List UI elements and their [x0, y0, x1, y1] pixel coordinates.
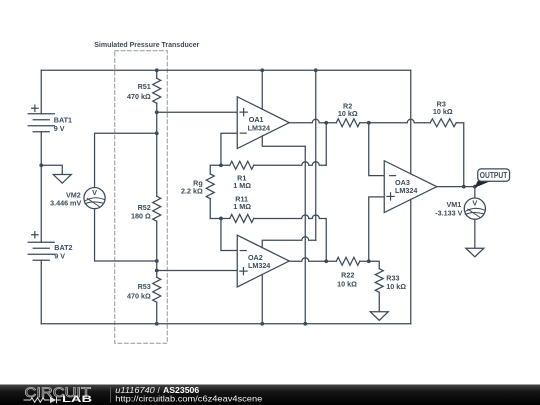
- wire R33 to ground: [378, 292, 380, 312]
- junction Rg/R11/OA2- node: [219, 217, 223, 221]
- junction VM2 bottom tap: [155, 259, 159, 263]
- wire to OA3 noninverting input: [369, 197, 385, 261]
- junction top rail / OA2 V+ riser: [314, 68, 318, 72]
- resistor R51: [153, 78, 161, 103]
- wire top V+ rail: [41, 69, 411, 71]
- svg-text:2.2 kΩ: 2.2 kΩ: [181, 187, 203, 196]
- wire bottom V- rail: [41, 323, 411, 325]
- svg-text:LAB: LAB: [62, 394, 93, 404]
- svg-text:-3.133 V: -3.133 V: [435, 208, 462, 217]
- wire R11 right lead to OA2 output net: [254, 215, 327, 261]
- wire BAT1 to BAT2: [40, 132, 42, 243]
- wire to ground symbol: [41, 165, 62, 174]
- op-amp OA2: [237, 235, 289, 287]
- junction bottom rail / negative net: [303, 322, 307, 326]
- wire R2 left lead: [326, 122, 336, 124]
- OA2 + pin mark: [240, 268, 247, 275]
- footer bar: [0, 385, 540, 405]
- OA3 + pin mark: [387, 193, 394, 200]
- junction VM2 top tap: [155, 131, 159, 135]
- resistor R3: [430, 119, 456, 127]
- svg-text:V: V: [92, 188, 97, 197]
- ground (VM1): [466, 248, 484, 257]
- svg-text:LM324: LM324: [395, 186, 417, 195]
- wire negative net vertical: [304, 146, 306, 324]
- wire R11 left lead: [221, 217, 230, 219]
- wire R1 right lead to OA1 output net: [254, 162, 327, 165]
- wire OA1 output to R1 feedback: [325, 123, 327, 166]
- flag OUTPUT pointer: [474, 181, 492, 188]
- junction bottom rail / R53: [155, 322, 159, 326]
- wire R53 to bottom rail: [156, 302, 158, 324]
- junction Rg/R1/OA1- node: [219, 163, 223, 167]
- junction top rail / OA1 V+: [260, 68, 264, 72]
- op-amp OA1: [237, 97, 289, 149]
- svg-text:http://circuitlab.com/c6z4eav4: http://circuitlab.com/c6z4eav4scene: [115, 395, 263, 404]
- junction R3 feedback / output: [462, 185, 466, 189]
- junction OA1 output node: [324, 121, 328, 125]
- resistor R1: [230, 161, 254, 169]
- svg-text:R51: R51: [138, 82, 151, 91]
- wire R2 right lead: [360, 122, 369, 124]
- ground (battery midpoint): [53, 175, 71, 184]
- svg-text:3.446 mV: 3.446 mV: [50, 199, 81, 208]
- svg-text:10 kΩ: 10 kΩ: [337, 279, 357, 288]
- enclosure: simulated pressure transducer dashed box: [115, 51, 168, 344]
- wire R2R3 node to R3: [369, 119, 431, 123]
- wire left rail BAT1 top lead: [40, 70, 42, 114]
- svg-text:R53: R53: [138, 282, 151, 291]
- ground (R33): [370, 312, 388, 321]
- OA1 - pin mark: [240, 132, 246, 134]
- wire Rg bottom: [210, 199, 221, 219]
- voltmeter VM1: [464, 198, 485, 219]
- wire to OA2 noninverting input: [157, 270, 238, 272]
- wire VM1 to ground: [474, 219, 476, 248]
- svg-text:1 MΩ: 1 MΩ: [233, 181, 251, 190]
- junction output node: [473, 185, 477, 189]
- resistor R22: [336, 257, 360, 265]
- junction bottom rail / OA2 V-: [260, 322, 264, 326]
- wire OA1 inverting input: [221, 133, 237, 165]
- junction OA3- node: [367, 121, 371, 125]
- resistor R53: [153, 277, 161, 302]
- resistor R11: [230, 214, 254, 222]
- wire OA2 V- pin: [261, 274, 263, 323]
- wire OA2 output: [289, 258, 326, 261]
- wire VM2 top: [95, 133, 157, 187]
- svg-text:OUTPUT: OUTPUT: [480, 171, 508, 180]
- wire output to VM1: [474, 187, 476, 198]
- voltmeter VM2: [84, 187, 105, 208]
- wire BAT2 to bottom rail: [40, 260, 42, 324]
- wire OA3 inverting input: [369, 123, 385, 176]
- svg-text:V: V: [472, 198, 477, 207]
- wire to OA1 noninverting input: [157, 111, 238, 113]
- battery BAT1: [28, 114, 54, 132]
- footer separator: [110, 387, 112, 403]
- junction OA2+ tap: [155, 269, 159, 273]
- flag OUTPUT box: [478, 169, 510, 181]
- junction OA3+ node: [367, 259, 371, 263]
- svg-text:LM324: LM324: [248, 123, 270, 132]
- svg-text:9 V: 9 V: [54, 124, 65, 133]
- wire R22 right lead: [360, 260, 369, 262]
- svg-text:Simulated Pressure Transducer: Simulated Pressure Transducer: [94, 40, 199, 49]
- wire R51 to R52: [156, 103, 158, 196]
- junction top rail / R51: [155, 68, 159, 72]
- resistor R2: [336, 119, 360, 127]
- op-amp OA3: [384, 161, 437, 213]
- wire top rail to R51: [156, 70, 158, 78]
- wire OA3 V+ pin from top rail: [410, 70, 412, 174]
- svg-text:470 kΩ: 470 kΩ: [127, 292, 151, 301]
- OA2 - pin mark: [240, 250, 246, 252]
- wire R22 left lead: [326, 260, 336, 262]
- svg-text:LM324: LM324: [248, 261, 270, 270]
- resistor R52: [153, 196, 161, 221]
- wire R52 to R53: [156, 221, 158, 277]
- wire OA1 output: [289, 119, 326, 123]
- wire R1 left lead: [221, 164, 230, 166]
- junction R51/OA1+ node: [155, 110, 159, 114]
- battery BAT2: [28, 242, 54, 260]
- logo wire-resistor-diode glyph: [24, 397, 62, 404]
- svg-text:10 kΩ: 10 kΩ: [433, 107, 453, 116]
- junction OA2 output node: [324, 259, 328, 263]
- OA1 + pin mark: [240, 109, 247, 116]
- svg-text:1 MΩ: 1 MΩ: [233, 202, 251, 211]
- resistor Rg: [206, 174, 214, 199]
- resistor R33: [375, 269, 383, 293]
- wire VM2 bottom: [95, 209, 157, 261]
- wire R3 to output node: [456, 123, 464, 187]
- svg-text:180 Ω: 180 Ω: [131, 211, 151, 220]
- wire OA3 V- pin to bottom rail: [410, 199, 412, 323]
- svg-text:470 kΩ: 470 kΩ: [127, 92, 151, 101]
- wire OA3 output: [437, 186, 475, 188]
- wire to OA2 inverting input: [221, 218, 237, 250]
- OA3 - pin mark: [390, 175, 396, 177]
- svg-text:10 kΩ: 10 kΩ: [338, 109, 358, 118]
- svg-text:R22: R22: [341, 270, 354, 279]
- wire OA2 V+ pin: [262, 237, 316, 248]
- wire OA1 V+ pin: [261, 70, 263, 109]
- wire OA1 V- pin to negative net: [262, 136, 305, 146]
- svg-text:9 V: 9 V: [54, 252, 65, 261]
- wire to Rg top: [210, 165, 221, 174]
- junction battery midpoint: [39, 163, 43, 167]
- wire OA2 V+ riser to top rail: [315, 70, 317, 240]
- svg-text:10 kΩ: 10 kΩ: [386, 282, 406, 291]
- wire R33 top lead: [369, 261, 380, 269]
